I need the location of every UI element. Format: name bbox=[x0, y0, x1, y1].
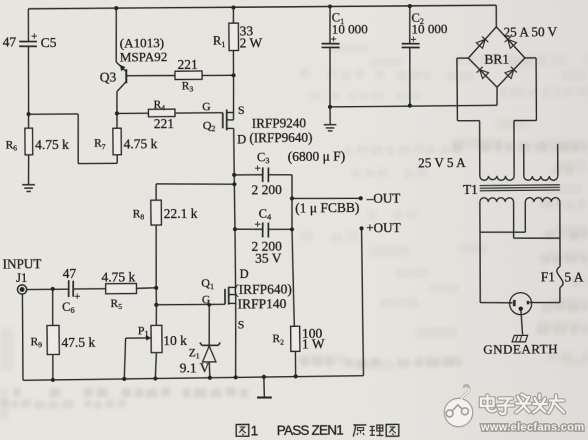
resistor R7 4.75k bbox=[94, 128, 158, 155]
watermark elecfans logo bbox=[444, 385, 472, 426]
node B : Q3 collector / R7 / R4 bbox=[115, 111, 149, 128]
wire primary to plug left bbox=[480, 232, 510, 303]
resistor R4 221 bbox=[148, 98, 223, 131]
wire output node column bbox=[289, 175, 295, 327]
wire BR1 DC minus leg bbox=[496, 87, 498, 105]
node input bias net bbox=[154, 286, 158, 307]
node A : C5/R6/R7 net bbox=[26, 111, 117, 164]
wire top V+ rail bbox=[28, 5, 496, 10]
chassis earth below plug bbox=[483, 308, 558, 357]
transistor Q1 IRFP640 bbox=[201, 266, 292, 332]
wire BR1 AC right leg bbox=[513, 58, 536, 121]
wire Q2 drain column bbox=[234, 128, 236, 287]
ground at bottom rail bbox=[257, 377, 272, 398]
wire BR1 AC left leg bbox=[457, 58, 480, 121]
capacitor C5 bbox=[2, 9, 57, 115]
ground under C1 bbox=[324, 107, 337, 131]
wire DC minus rail bbox=[328, 103, 497, 109]
transformer T1 primary bbox=[480, 197, 560, 239]
capacitor C4 2200 35V bbox=[235, 207, 293, 266]
transistor Q2 IRFP9240 bbox=[202, 100, 312, 147]
wire gate of Q1 bbox=[156, 303, 225, 306]
ground under R6 bbox=[22, 185, 35, 192]
capacitor C1 10000 bbox=[321, 6, 369, 107]
capacitor C3 2200 bbox=[234, 149, 346, 198]
node R3/R1/Q2-source bbox=[231, 73, 236, 120]
resistor R9 47.5k bbox=[30, 286, 96, 380]
wire bottom rail bbox=[23, 376, 364, 381]
wire Q1 source to rail bbox=[235, 295, 237, 378]
bridge rectifier BR1 25A 50V bbox=[468, 5, 558, 88]
resistor R5 4.75k bbox=[101, 269, 156, 311]
resistor R8 22.1k bbox=[132, 183, 235, 288]
transformer T1 core bbox=[463, 181, 560, 197]
connector J1 INPUT jack bbox=[3, 256, 69, 380]
resistor R1 33 2W bbox=[213, 7, 263, 75]
wire plug right bbox=[531, 301, 560, 304]
node drain column junctions bbox=[232, 173, 237, 232]
node +OUT terminal bbox=[359, 220, 402, 375]
resistor R3 221 bbox=[127, 56, 234, 94]
node bottom rail junctions bbox=[51, 374, 298, 382]
caption 图1 PASS ZEN1 原理图 bbox=[236, 422, 399, 439]
zener Z1 9.1V bbox=[179, 303, 220, 378]
capacitor C6 47 bbox=[62, 266, 106, 316]
watermark 电子发烧友 text bbox=[481, 395, 564, 414]
node -OUT terminal bbox=[292, 191, 401, 216]
capacitor C2 10000 bbox=[401, 6, 448, 106]
fuse F1 5A bbox=[540, 238, 584, 303]
transistor Q3 (A1013)/MSPA92 bbox=[99, 8, 168, 114]
connector AC plug bbox=[510, 293, 532, 315]
node top rail junctions bbox=[114, 3, 412, 10]
resistor R2 100 1W bbox=[272, 326, 325, 377]
potentiometer P1 10k bbox=[124, 305, 188, 379]
transformer T1 secondary bbox=[418, 120, 558, 181]
resistor R6 4.75k bbox=[5, 114, 69, 185]
